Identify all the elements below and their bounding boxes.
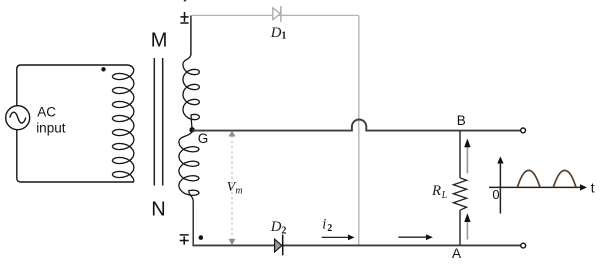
svg-text:D: D <box>270 25 282 41</box>
svg-text:i: i <box>322 217 326 233</box>
svg-text:1: 1 <box>281 31 286 42</box>
svg-text:D: D <box>270 219 282 235</box>
svg-text:M: M <box>151 30 168 52</box>
svg-text:B: B <box>457 113 466 128</box>
svg-text:2: 2 <box>281 226 286 237</box>
svg-text:t: t <box>591 181 595 196</box>
svg-text:L: L <box>441 190 448 201</box>
svg-text:AC: AC <box>37 104 56 119</box>
svg-text:m: m <box>235 186 242 197</box>
svg-text:2: 2 <box>327 223 332 234</box>
svg-text:input: input <box>36 121 66 136</box>
svg-text:0: 0 <box>492 187 499 202</box>
svg-text:R: R <box>431 183 441 199</box>
svg-text:N: N <box>151 199 165 221</box>
svg-text:G: G <box>198 131 209 146</box>
svg-text:A: A <box>452 246 461 261</box>
